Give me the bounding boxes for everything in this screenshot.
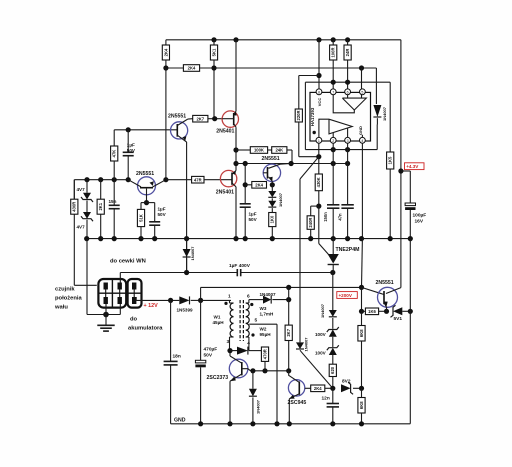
wire 12V row to transformer pin1 bbox=[201, 299, 231, 301]
resistor R 100K horizontal bbox=[250, 147, 267, 154]
capacitor C 150n bbox=[327, 204, 339, 206]
svg-text:51K: 51K bbox=[138, 214, 143, 222]
node dot Q2 base node bbox=[144, 200, 149, 205]
svg-text:W3: W3 bbox=[260, 306, 267, 311]
svg-text:2N5401: 2N5401 bbox=[216, 189, 234, 195]
transistor Q1 2N5551 bbox=[171, 122, 188, 139]
wire 2K4 column down to base row bbox=[165, 68, 167, 180]
transformer T1 pin 6 lead bbox=[246, 302, 249, 304]
wire column to 1K6 row bbox=[361, 287, 363, 311]
node dot 6K8 junction at 8V2 row bbox=[359, 386, 364, 391]
wire 2K4 left lead bbox=[245, 184, 252, 186]
pin 8 of U1 bbox=[316, 89, 322, 95]
wire pin5 stub to comparator A bbox=[361, 95, 363, 99]
svg-text:220R: 220R bbox=[296, 110, 301, 120]
svg-text:wału: wału bbox=[54, 305, 68, 311]
resistor R 2K4 vertical top-left bbox=[165, 40, 167, 45]
svg-text:1N4007: 1N4007 bbox=[278, 192, 283, 207]
node dot rail68 at 5K1 bbox=[211, 65, 216, 70]
svg-text:2K4: 2K4 bbox=[163, 48, 168, 56]
svg-text:4: 4 bbox=[361, 139, 363, 143]
wire pin6 to 1N4007 bbox=[249, 299, 263, 301]
node dot top bus at 100R column bbox=[331, 37, 336, 42]
resistor R 2K4 horizontal mid bbox=[252, 182, 267, 189]
svg-text:8V2: 8V2 bbox=[342, 379, 351, 385]
wire Q5 emitter to 2K4 right node bbox=[271, 181, 273, 185]
node dot mid bus x=410.3 bbox=[408, 236, 413, 241]
resistor R 100R vertical above IC bbox=[332, 40, 334, 45]
svg-text:2N5551: 2N5551 bbox=[262, 156, 280, 162]
wire VCC column from top bus bbox=[318, 40, 320, 89]
wire sensor right pin to +12V bbox=[135, 297, 137, 300]
wire +4.3V branch bbox=[401, 170, 410, 172]
node dot after 1N5399 bbox=[198, 298, 203, 303]
wire Q1 base row y=129.8 bbox=[114, 129, 177, 131]
svg-text:2SC2373: 2SC2373 bbox=[207, 375, 229, 381]
node dot bottom bus x=332.8 bbox=[330, 421, 335, 426]
node dot top bus at 5K1 bbox=[211, 37, 216, 42]
wire 8V2 node to 12n bbox=[332, 388, 334, 403]
transformer T1 tap 5 bbox=[249, 323, 277, 325]
node dot right column at 5V1 bbox=[408, 309, 413, 314]
svg-text:2N5551: 2N5551 bbox=[136, 171, 154, 177]
svg-text:akumulatora: akumulatora bbox=[128, 326, 163, 332]
svg-text:5K1: 5K1 bbox=[211, 48, 216, 56]
svg-text:620: 620 bbox=[330, 366, 335, 374]
svg-text:50V: 50V bbox=[204, 353, 213, 359]
svg-text:8: 8 bbox=[318, 90, 320, 94]
node dot 1K6 row left bbox=[359, 309, 364, 314]
label +200V red boxed bbox=[337, 292, 358, 299]
svg-text:430R: 430R bbox=[72, 202, 77, 212]
wire gate diagonal to TNE2P4M bbox=[319, 244, 329, 256]
svg-text:2K4: 2K4 bbox=[188, 66, 196, 71]
wire 220R bottom to pin1 column bbox=[299, 156, 319, 158]
node dot zener column top bbox=[84, 177, 89, 182]
node dot PNP column at 100K row bbox=[233, 147, 238, 152]
thyristor TNE2P4M bbox=[328, 254, 339, 264]
wire 47n column from pin3 bbox=[347, 143, 349, 205]
node dot row370 at 2K7 column bbox=[286, 368, 291, 373]
node dot row163 end at 47n column bbox=[345, 161, 350, 166]
resistor R 6K8 upper vertical bbox=[361, 311, 363, 325]
node dot row82 at pin7 column bbox=[331, 80, 336, 85]
wire mid ground bus y=238.6 bbox=[87, 238, 411, 240]
wire base row to 47R bbox=[166, 179, 192, 181]
resistor R 2K4 horizontal on rail68 bbox=[183, 65, 199, 72]
wire Q7 base to row bbox=[242, 369, 251, 371]
resistor R 240R vertical bbox=[307, 216, 314, 230]
op-amp U1 comparator A triangle bbox=[342, 98, 366, 110]
capacitor C 470uF 50V electrolytic bbox=[200, 300, 202, 360]
node dot WN row at TNE cathode bbox=[330, 270, 335, 275]
wire Q8 base to 2K4 bbox=[305, 387, 311, 389]
node dot mid bus x=361.5 bbox=[359, 236, 364, 241]
svg-text:1: 1 bbox=[228, 294, 231, 300]
wire right vertical from top bus down to Q6 collector region bbox=[400, 40, 402, 288]
transistor Q7 2SC2373 bbox=[229, 359, 248, 378]
wire 100K-24K row y=150 bbox=[236, 149, 250, 151]
zener D 100V upper bbox=[329, 330, 337, 337]
svg-text:6: 6 bbox=[347, 90, 349, 94]
node dot bottom bus x=200.6 bbox=[198, 421, 203, 426]
wire PNP column x=236 bbox=[235, 40, 237, 111]
pin 5 of U1 bbox=[360, 89, 366, 95]
resistor R 47R horizontal bbox=[192, 176, 204, 183]
transistor Q5 2N5551 bbox=[263, 164, 280, 181]
svg-text:do: do bbox=[130, 317, 138, 323]
node dot 2K4 left bbox=[243, 182, 248, 187]
diode D 1N4007 beside IC bbox=[373, 105, 381, 117]
svg-text:100K: 100K bbox=[254, 148, 264, 153]
resistor R 2K7 horizontal Q2 base feed bbox=[193, 115, 208, 122]
resistor R 1K6 horizontal bbox=[362, 310, 366, 312]
svg-text:W2: W2 bbox=[260, 327, 267, 332]
resistor R 2K1 vertical bbox=[100, 180, 102, 200]
pin 3 of U1 bbox=[345, 137, 351, 143]
transformer T1 secondary W3/W2 winding bbox=[246, 303, 249, 310]
wire bottom ground bus y=423.8 bbox=[171, 423, 411, 425]
node dot 240R branch bbox=[316, 204, 321, 209]
node dot row370 at 1N4007 bbox=[250, 368, 255, 373]
svg-text:50V: 50V bbox=[249, 217, 258, 222]
capacitor C 18n bbox=[170, 300, 172, 361]
node dot 2K1 column top bbox=[98, 177, 103, 182]
svg-text:+ 12V: + 12V bbox=[144, 303, 159, 309]
capacitor C 1uF 400V series bbox=[236, 269, 238, 276]
node dot bottom bus x=361.5 bbox=[359, 421, 364, 426]
zener D 100V lower bbox=[329, 348, 337, 355]
node dot rail68 at 2K4 column bbox=[163, 65, 168, 70]
wire pin1 column into comparator area bbox=[318, 143, 320, 157]
node dot mid bus x=186.6 bbox=[184, 236, 189, 241]
capacitor C 15n bbox=[113, 180, 115, 206]
transistor Q4 2N5401 bbox=[222, 111, 238, 127]
svg-text:45µH: 45µH bbox=[213, 320, 225, 325]
svg-text:czujnik: czujnik bbox=[55, 287, 75, 293]
capacitor C 100uF 16V electrolytic bbox=[405, 203, 415, 206]
svg-text:240R: 240R bbox=[308, 218, 313, 228]
wire pin4 GND stub bbox=[361, 135, 363, 138]
svg-text:430K: 430K bbox=[316, 177, 321, 187]
transistor Q2 2N5551 bbox=[138, 177, 156, 195]
sensor connector symbol bbox=[98, 279, 141, 308]
node dot row370 at 470R bbox=[262, 368, 267, 373]
resistor R 24K horizontal bbox=[272, 147, 287, 154]
svg-text:4V7: 4V7 bbox=[77, 225, 86, 230]
svg-text:3: 3 bbox=[227, 339, 230, 345]
wire between 100K and 24K bbox=[268, 149, 272, 151]
transformer T1 core bbox=[239, 300, 241, 341]
svg-text:5: 5 bbox=[255, 318, 258, 324]
svg-text:2SC945: 2SC945 bbox=[288, 400, 307, 406]
node dot feed row at 2K7 column bbox=[286, 285, 291, 290]
node dot mid bus x=347.6 bbox=[345, 236, 350, 241]
node dot 47K/15n column top bbox=[112, 177, 117, 182]
svg-text:1N4007: 1N4007 bbox=[190, 246, 195, 261]
svg-text:2N5551: 2N5551 bbox=[168, 113, 186, 119]
op-amp U1 comparator B triangle bbox=[329, 119, 352, 134]
diode D 1N4007 on x=300 column bbox=[296, 342, 304, 349]
svg-text:15n: 15n bbox=[109, 199, 117, 204]
capacitor C2 1uF 50V bbox=[154, 203, 156, 222]
svg-text:położenia: położenia bbox=[55, 296, 83, 302]
resistor R 430K vertical bbox=[318, 157, 320, 174]
svg-text:100V: 100V bbox=[315, 332, 327, 337]
node dot diode row at pin3 column bbox=[227, 348, 232, 353]
svg-text:1: 1 bbox=[318, 139, 320, 143]
wire pin3 stub to comparator B bbox=[347, 128, 349, 137]
node dot mid bus x=272.3 bbox=[270, 236, 275, 241]
node dot sensor ground bbox=[103, 312, 109, 318]
svg-text:24K: 24K bbox=[275, 148, 283, 153]
svg-text:+200V: +200V bbox=[339, 293, 353, 298]
wire pin1 column continues down to gate diagonal bbox=[318, 206, 320, 243]
svg-text:1N4007: 1N4007 bbox=[304, 337, 309, 352]
capacitor C 47n bbox=[341, 204, 353, 206]
svg-text:100R: 100R bbox=[331, 47, 336, 57]
node dot row149.6 at pin3 column bbox=[345, 147, 350, 152]
node dot pin1 column junction bbox=[316, 154, 321, 159]
svg-text:47R: 47R bbox=[194, 177, 202, 182]
resistor R 620 vertical bbox=[332, 355, 334, 364]
pin 1 of U1 bbox=[316, 137, 322, 143]
svg-text:18n: 18n bbox=[173, 354, 181, 360]
node dot PNP column at comparator row bbox=[233, 161, 238, 166]
transformer T1 pin 3 lead bbox=[230, 336, 234, 338]
node dot base row at x=165.9 bbox=[163, 177, 168, 182]
svg-text:16V: 16V bbox=[415, 219, 424, 225]
node dot +4.3V junction bbox=[398, 168, 403, 173]
wire Q7 collector column bbox=[229, 351, 231, 356]
svg-text:2: 2 bbox=[332, 139, 334, 143]
svg-text:3: 3 bbox=[347, 139, 349, 143]
transistor Q8 2SC945 bbox=[288, 380, 304, 396]
wire x=300 column down to 1N4007 bbox=[299, 179, 301, 342]
svg-text:47K: 47K bbox=[112, 150, 117, 158]
svg-text:2K7: 2K7 bbox=[196, 116, 204, 121]
wire TNE anode from bus bbox=[332, 239, 334, 254]
wire Q1 collector to 2K7 row bbox=[188, 118, 193, 120]
svg-text:47n: 47n bbox=[337, 213, 342, 221]
svg-text:6K8: 6K8 bbox=[359, 329, 364, 337]
diode D 1N5399 bbox=[179, 296, 189, 304]
wire HV node up to feed row bbox=[288, 287, 290, 299]
node dot Q6 emitter node bbox=[384, 309, 389, 314]
svg-text:4V7: 4V7 bbox=[77, 187, 86, 192]
svg-text:100µF: 100µF bbox=[413, 213, 427, 219]
node dot mid bus x=236 bbox=[233, 236, 238, 241]
wire WN row right of cap bbox=[241, 272, 333, 274]
transformer T1 primary W1 winding bbox=[230, 303, 233, 310]
wire pin5 column above IC bbox=[361, 68, 363, 89]
svg-text:2N5401: 2N5401 bbox=[216, 129, 234, 135]
svg-text:GND: GND bbox=[358, 126, 363, 135]
wire 220R feed row y=75.5 bbox=[299, 75, 319, 77]
wire base subnet row y=202.6 bbox=[141, 202, 155, 204]
svg-text:2K7: 2K7 bbox=[286, 328, 291, 336]
node dot HV node bbox=[286, 297, 291, 302]
wire pin2 stub to comparator B bbox=[332, 133, 334, 138]
node dot row82 at pin6 column bbox=[345, 80, 350, 85]
svg-text:1µF: 1µF bbox=[158, 207, 166, 212]
wire Q7 emitter down to bus bbox=[229, 381, 231, 424]
resistor R 1K0 vertical below diode chain bbox=[269, 213, 276, 227]
svg-text:1,7mH: 1,7mH bbox=[260, 312, 274, 317]
node dot mid bus x=86.7 bbox=[84, 236, 89, 241]
svg-text:1K0: 1K0 bbox=[270, 215, 275, 223]
capacitor C 12n bbox=[327, 403, 339, 405]
wire Q2 base down bbox=[146, 189, 148, 203]
svg-text:+4.3V: +4.3V bbox=[406, 164, 419, 169]
wire Q8 emitter down bbox=[288, 399, 290, 424]
svg-text:1N5399: 1N5399 bbox=[177, 308, 194, 313]
node dot mid bus x=100.7 bbox=[98, 236, 103, 241]
transformer T1 pin 4 lead bbox=[246, 336, 249, 338]
node dot row163 at 150n column bbox=[331, 161, 336, 166]
node dot bottom bus x=230 bbox=[227, 421, 232, 426]
zener D 4V7 upper bbox=[86, 180, 88, 193]
wire 1N4007 cathode column to row149.6 bbox=[376, 125, 378, 150]
label +4.3V red boxed bbox=[405, 163, 425, 170]
svg-text:2K1: 2K1 bbox=[98, 202, 103, 210]
svg-text:2K4: 2K4 bbox=[314, 386, 322, 391]
diode D 1N4007 to bus bbox=[252, 371, 254, 389]
capacitor C3 1uF 50V bbox=[240, 203, 251, 205]
svg-text:1N4007: 1N4007 bbox=[256, 399, 261, 414]
ground symbol bbox=[105, 315, 107, 326]
wire base row y=179.7 left segment bbox=[74, 179, 128, 181]
svg-text:50V: 50V bbox=[158, 212, 167, 217]
wire comparator feed row y=287.4 bbox=[201, 286, 362, 288]
op-amp U1 HA17393 body bbox=[310, 92, 371, 141]
wire diagonal to 8V2 node bbox=[301, 351, 333, 388]
node dot top bus at 24R column bbox=[345, 37, 350, 42]
node dot VCC column at 220R row bbox=[316, 73, 321, 78]
svg-text:95µH: 95µH bbox=[260, 332, 272, 337]
resistor R 2K4 horizontal bottom bbox=[311, 385, 325, 392]
pin 2 of U1 bbox=[330, 137, 336, 143]
node dot mid bus x=390.2 bbox=[388, 236, 393, 241]
wire sensor top pin to WN row bbox=[119, 273, 121, 283]
wire 240R branch corner bbox=[311, 205, 319, 207]
node dot mid bus x=154.7 bbox=[152, 236, 157, 241]
svg-text:VCC: VCC bbox=[317, 98, 322, 107]
wire 12V node up to comparator feed row bbox=[200, 287, 202, 300]
svg-text:1µF 400V: 1µF 400V bbox=[229, 263, 251, 269]
node dot base row at 1uF bottom bbox=[126, 177, 131, 182]
wire pin6 stub to comparator A bbox=[347, 95, 349, 99]
wire rail68 corner down to 1N4007 anode bbox=[375, 68, 377, 104]
node dot bottom bus x=289.3 bbox=[287, 421, 292, 426]
svg-text:12n: 12n bbox=[322, 396, 330, 402]
wire pin1 to comparator B bbox=[319, 119, 329, 137]
zener D 4V7 lower bbox=[83, 212, 91, 219]
svg-text:2K4: 2K4 bbox=[255, 182, 263, 187]
wire comparator row y=163.5 bbox=[236, 163, 348, 165]
wire base drive row y=370.8 bbox=[251, 370, 289, 372]
node dot mid bus x=310.7 bbox=[308, 236, 313, 241]
wire left vertical x=74.3 down to sensor bbox=[73, 180, 75, 286]
diode D 1N4007 to WN coil bbox=[186, 239, 188, 249]
wire IC outer left x=305.4 bbox=[304, 82, 306, 149]
wire top supply bus bbox=[166, 39, 401, 41]
svg-text:470R: 470R bbox=[262, 349, 267, 359]
node dot row163 at Q5 collector bbox=[289, 161, 294, 166]
node dot 5K1 column meets 2K7 row bbox=[212, 116, 217, 121]
node dot top bus at PNP column bbox=[233, 37, 238, 42]
wire diagonal from pin1 node to x=300 column bbox=[300, 157, 319, 179]
svg-text:TNE2P4M: TNE2P4M bbox=[336, 247, 360, 253]
wire pin4 column down to bus bbox=[361, 143, 363, 238]
svg-text:1K5: 1K5 bbox=[388, 156, 393, 164]
wire between zeners bbox=[86, 201, 88, 213]
wire IC outer bottom row y=149.6 bbox=[305, 149, 377, 151]
node dot Q6 base junction bbox=[359, 285, 364, 290]
zener D 5V1 bbox=[393, 307, 402, 315]
pin 6 of U1 bbox=[345, 89, 351, 95]
node dot 8V2 node bbox=[330, 386, 335, 391]
node dot Q5 emitter node bbox=[270, 182, 275, 187]
node dot mid bus x=141 bbox=[138, 236, 143, 241]
svg-text:7: 7 bbox=[332, 90, 334, 94]
node dot mid bus x=114.2 bbox=[112, 236, 117, 241]
resistor R 24R vertical above IC bbox=[347, 40, 349, 45]
svg-text:W1: W1 bbox=[214, 315, 221, 320]
wire 47R to Q3 base bbox=[204, 179, 232, 181]
node dot bottom bus x=252.9 bbox=[250, 421, 255, 426]
resistor R 47K vertical bbox=[113, 130, 115, 146]
wire WN row y=272.5 bbox=[120, 272, 237, 274]
transformer T1 pin 1 lead bbox=[229, 300, 231, 303]
svg-text:do cewki WN: do cewki WN bbox=[110, 259, 146, 265]
wire comparator A output to pin7 bbox=[333, 95, 354, 113]
svg-text:470µF: 470µF bbox=[204, 347, 218, 353]
resistor R 51K vertical bbox=[140, 203, 142, 210]
wire Q6 base wire bbox=[362, 287, 385, 294]
resistor R 220R vertical bbox=[298, 76, 300, 110]
wire 150n column from pin2 bbox=[332, 143, 334, 205]
resistor R 2K7 vertical bbox=[288, 300, 290, 326]
diode D 1N4007 in 200V chain bbox=[329, 310, 337, 317]
svg-text:1K6: 1K6 bbox=[368, 309, 376, 314]
wire 2K7 to 5K1 column node bbox=[208, 118, 222, 120]
svg-text:5V1: 5V1 bbox=[394, 316, 403, 322]
node dot pin5 column joins rail68 bbox=[359, 65, 364, 70]
svg-text:2N5551: 2N5551 bbox=[376, 280, 394, 286]
svg-text:5: 5 bbox=[361, 90, 363, 94]
svg-text:GND: GND bbox=[174, 418, 186, 424]
svg-text:4: 4 bbox=[247, 341, 250, 347]
resistor R 6K8 lower vertical bbox=[361, 388, 363, 397]
node dot mid bus x=333.2 bbox=[331, 236, 336, 241]
resistor R 5K1 vertical bbox=[213, 40, 215, 45]
node dot bottom bus x=277 bbox=[274, 421, 279, 426]
wire row82 corner down to 1K5 bbox=[389, 82, 391, 152]
resistor R 1K5 vertical bbox=[387, 152, 394, 169]
wire pin4 column below bus bbox=[361, 239, 364, 288]
diode D 1N4007 chain lower bbox=[271, 198, 273, 201]
node dot mid bus x=245.2 bbox=[243, 236, 248, 241]
wire right column x=410.3 to bottom bbox=[409, 239, 411, 424]
wire sensor bottom pins to ground row bbox=[105, 304, 107, 315]
svg-text:1µF: 1µF bbox=[249, 212, 257, 217]
svg-text:6: 6 bbox=[247, 294, 250, 300]
node dot top bus at VCC column bbox=[316, 37, 321, 42]
wire second rail y=68 bbox=[166, 67, 377, 69]
svg-text:HA17393: HA17393 bbox=[310, 107, 315, 126]
svg-text:24R: 24R bbox=[345, 49, 350, 57]
